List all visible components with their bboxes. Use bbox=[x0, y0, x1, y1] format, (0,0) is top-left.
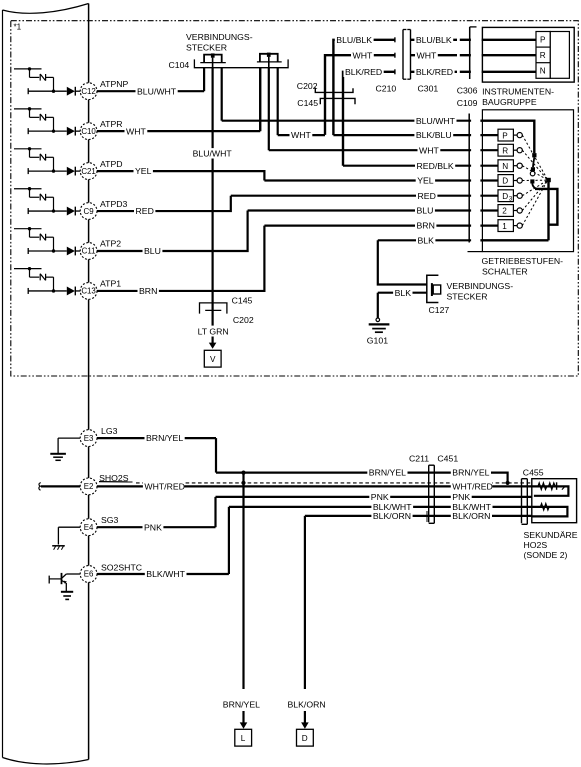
svg-text:YEL: YEL bbox=[417, 176, 434, 186]
label BLK/WHT (C211 left) bbox=[371, 502, 413, 512]
label BLK (row) bbox=[416, 235, 435, 245]
wire WHT/RED from E2 bbox=[41, 485, 80, 487]
label PNK (C211 left) bbox=[369, 492, 390, 502]
connector E4 bbox=[80, 519, 97, 536]
svg-text:C13: C13 bbox=[81, 287, 96, 296]
position P bbox=[480, 129, 522, 141]
wire into C21 with terminal bbox=[28, 168, 67, 174]
svg-text:STECKER: STECKER bbox=[447, 291, 488, 301]
svg-text:VERBINDUNGS-: VERBINDUNGS- bbox=[186, 32, 253, 42]
diode at C10 bbox=[67, 127, 80, 136]
svg-text:C145: C145 bbox=[297, 98, 318, 108]
svg-text:BLK/RED: BLK/RED bbox=[416, 67, 453, 77]
svg-text:C451: C451 bbox=[437, 454, 458, 464]
wire into C10 with terminal bbox=[28, 128, 67, 134]
wire riser (C104 to WHT from C10) bbox=[259, 68, 261, 131]
connector C455 bbox=[522, 479, 528, 525]
svg-text:D: D bbox=[302, 734, 308, 743]
svg-text:*1: *1 bbox=[14, 23, 22, 32]
arrow to terminal D bbox=[304, 711, 306, 723]
svg-text:D: D bbox=[502, 192, 508, 201]
label PNK (C451 right) bbox=[451, 492, 472, 502]
connector C145 (inline) bbox=[320, 98, 355, 104]
svg-text:BLK/ORN: BLK/ORN bbox=[373, 511, 411, 521]
svg-text:SEKUNDÄRE: SEKUNDÄRE bbox=[524, 530, 578, 540]
svg-text:RED: RED bbox=[136, 206, 154, 216]
label BRN (row) bbox=[415, 220, 436, 230]
label BLU at C11 bbox=[143, 246, 163, 256]
label BLU/WHT on riser bbox=[191, 148, 233, 158]
arrow to terminal L bbox=[242, 711, 244, 723]
connector C13 bbox=[80, 283, 97, 300]
connector C210/C301 bracket pair bbox=[403, 30, 411, 80]
svg-text:BLU: BLU bbox=[417, 206, 434, 216]
svg-text:BRN: BRN bbox=[139, 286, 157, 296]
svg-text:D: D bbox=[502, 177, 508, 186]
svg-text:V: V bbox=[210, 355, 216, 364]
label WHT/RED (C451 right) bbox=[451, 479, 493, 491]
shield dashed line (WHT/RED) bbox=[99, 481, 133, 483]
diode at C9 bbox=[67, 207, 80, 216]
svg-text:2: 2 bbox=[502, 207, 507, 216]
svg-text:C210: C210 bbox=[376, 83, 397, 93]
svg-text:ATPD: ATPD bbox=[100, 159, 123, 169]
indicator lamp circuit at C9 bbox=[14, 187, 54, 211]
wire BLU/WHT inside switch to wiper bbox=[480, 121, 534, 153]
wire RED switch row bbox=[231, 195, 471, 197]
svg-text:C12: C12 bbox=[81, 87, 95, 96]
wire riser (C104 to switch row WHT) bbox=[268, 68, 270, 151]
wire BRN from C13 to switch bbox=[97, 226, 264, 291]
label WHT (row) bbox=[418, 145, 441, 155]
wire WHT jog to C104 bbox=[278, 134, 325, 136]
svg-text:E2: E2 bbox=[84, 482, 94, 491]
svg-text:C104: C104 bbox=[169, 60, 190, 70]
label BLK at C127 bbox=[393, 288, 412, 298]
svg-text:BLK/BLU: BLK/BLU bbox=[416, 130, 452, 140]
wire BLK/ORN drop to D bbox=[304, 516, 306, 689]
wire YEL switch row bbox=[264, 179, 471, 181]
label BLK/RED (left) bbox=[344, 67, 384, 77]
svg-text:WHT: WHT bbox=[291, 130, 311, 140]
svg-text:HO2S: HO2S bbox=[524, 540, 548, 550]
label YEL at C21 bbox=[134, 166, 153, 176]
svg-text:BLU/BLK: BLU/BLK bbox=[416, 35, 452, 45]
svg-text:WHT: WHT bbox=[126, 126, 146, 136]
diode at C11 bbox=[67, 247, 80, 256]
wire BRN/YEL run to C211 bbox=[216, 473, 508, 484]
svg-text:R: R bbox=[502, 146, 508, 155]
connector E6 bbox=[80, 566, 97, 583]
svg-text:WHT: WHT bbox=[419, 145, 439, 155]
svg-text:RED: RED bbox=[418, 191, 436, 201]
svg-text:BLK/RED: BLK/RED bbox=[345, 67, 382, 77]
wire BLU/WHT switch row bbox=[222, 120, 471, 122]
connector C109 line bbox=[468, 114, 470, 243]
chassis ground at E4 bbox=[52, 527, 65, 550]
svg-text:PNK: PNK bbox=[144, 522, 162, 532]
wire PNK from E4 bbox=[58, 526, 80, 528]
svg-text:N: N bbox=[540, 67, 546, 76]
position D bbox=[480, 175, 522, 187]
label RED (row) bbox=[416, 191, 437, 201]
diode at C12 bbox=[67, 87, 80, 96]
wire BRN/YEL drop to L bbox=[242, 473, 244, 689]
svg-text:SO2SHTC: SO2SHTC bbox=[101, 562, 142, 572]
position N bbox=[480, 160, 522, 172]
svg-text:BRN/YEL: BRN/YEL bbox=[146, 433, 183, 443]
contact loop bbox=[535, 189, 557, 225]
label BRN/YEL (C211 left) bbox=[367, 467, 407, 477]
label BLK/ORN (C451 right) bbox=[451, 511, 492, 521]
wiper dashed lines bbox=[522, 135, 547, 226]
svg-text:ATP2: ATP2 bbox=[100, 239, 121, 249]
svg-text:BLK/ORN: BLK/ORN bbox=[452, 511, 490, 521]
terminal box V bbox=[204, 350, 221, 367]
sensor element (signal) bbox=[532, 482, 569, 496]
wire BRN switch row bbox=[264, 225, 471, 227]
wire into C13 with terminal bbox=[28, 288, 67, 294]
connector C211/C451 bbox=[427, 465, 434, 523]
svg-text:STECKER: STECKER bbox=[186, 42, 227, 52]
indicator cells P R N bbox=[536, 32, 569, 79]
svg-text:BLU/WHT: BLU/WHT bbox=[137, 86, 177, 96]
connector C306 line bbox=[470, 27, 477, 79]
terminal box L bbox=[235, 729, 252, 746]
label YEL (row) bbox=[416, 175, 435, 185]
svg-text:L: L bbox=[241, 734, 246, 743]
label PNK at E4 bbox=[143, 522, 164, 532]
svg-text:BLK: BLK bbox=[418, 235, 435, 245]
wiper contact squares and hooks bbox=[530, 153, 551, 189]
ground G101 bbox=[369, 293, 390, 333]
svg-text:BRN/YEL: BRN/YEL bbox=[369, 468, 406, 478]
svg-text:PNK: PNK bbox=[452, 492, 470, 502]
diode at C21 bbox=[67, 167, 80, 176]
wire BLU/WHT from C12 to C104 bbox=[97, 90, 204, 92]
svg-text:INSTRUMENTEN-: INSTRUMENTEN- bbox=[482, 86, 554, 96]
svg-text:BAUGRUPPE: BAUGRUPPE bbox=[482, 97, 537, 107]
svg-text:WHT/RED: WHT/RED bbox=[452, 482, 493, 492]
wires through C210/C301 to C306 bbox=[411, 39, 457, 41]
wire riser (C104 to switch row BLU/WHT) bbox=[221, 68, 223, 121]
wire BLK/WHT from E6 bbox=[66, 573, 80, 575]
wire into C9 with terminal bbox=[28, 208, 67, 214]
svg-text:C11: C11 bbox=[82, 247, 96, 256]
wire into C11 with terminal bbox=[28, 248, 67, 254]
svg-text:G101: G101 bbox=[367, 336, 388, 346]
svg-text:BLU/BLK: BLU/BLK bbox=[336, 35, 372, 45]
svg-text:C9: C9 bbox=[84, 207, 95, 216]
wire WHT from C10 to C104 bbox=[97, 130, 260, 132]
indicator lamp circuit at C13 bbox=[14, 267, 54, 291]
label BLK/WHT (C451 right) bbox=[451, 502, 493, 512]
wire YEL from C21 to switch bbox=[97, 171, 264, 180]
label WHT (row near C104) bbox=[290, 130, 313, 140]
wire RED/BLK switch row bbox=[343, 165, 471, 167]
svg-text:BLU/WHT: BLU/WHT bbox=[416, 116, 456, 126]
svg-text:SCHALTER: SCHALTER bbox=[482, 267, 528, 277]
svg-text:GETRIEBESTUFEN-: GETRIEBESTUFEN- bbox=[482, 256, 564, 266]
wire into C12 with terminal bbox=[28, 88, 67, 94]
junction dots BRN/YEL shield bbox=[241, 471, 245, 475]
connector C21 bbox=[80, 163, 97, 180]
label WHT at C10 bbox=[125, 126, 148, 136]
svg-text:E4: E4 bbox=[84, 523, 94, 532]
common contact drop bbox=[547, 182, 549, 240]
svg-text:C202: C202 bbox=[233, 315, 254, 325]
svg-text:C211: C211 bbox=[409, 454, 429, 464]
label BLU/BLK (right) bbox=[414, 35, 453, 45]
svg-text:WHT: WHT bbox=[353, 50, 373, 60]
svg-text:1: 1 bbox=[502, 222, 507, 231]
sekundaere HO2S sensor box bbox=[532, 479, 577, 523]
svg-text:PNK: PNK bbox=[371, 492, 389, 502]
svg-text:C306: C306 bbox=[457, 86, 478, 96]
instrument cluster box (INSTRUMENTEN-BAUGRUPPE) bbox=[482, 27, 574, 82]
svg-text:ATPD3: ATPD3 bbox=[100, 199, 128, 209]
svg-text:BLK/ORN: BLK/ORN bbox=[288, 699, 326, 709]
svg-text:LG3: LG3 bbox=[101, 426, 118, 436]
svg-text:ATPR: ATPR bbox=[100, 119, 123, 129]
connector C10 bbox=[80, 123, 97, 140]
svg-text:E6: E6 bbox=[84, 570, 94, 579]
wire BLU switch row bbox=[248, 209, 472, 211]
wire PNK run to C211 bbox=[216, 496, 532, 498]
connector C9 bbox=[80, 203, 97, 220]
wire BLK from G101 to C127 bbox=[378, 292, 427, 294]
arrow to V bbox=[212, 337, 214, 344]
svg-text:BLU: BLU bbox=[144, 246, 161, 256]
svg-text:LT GRN: LT GRN bbox=[198, 327, 229, 337]
label BLU/BLK (left) bbox=[335, 35, 374, 45]
svg-text:P: P bbox=[502, 131, 508, 140]
wire BLK switch row bbox=[378, 239, 471, 241]
svg-text:BLK/WHT: BLK/WHT bbox=[146, 569, 185, 579]
svg-text:VERBINDUNGS-: VERBINDUNGS- bbox=[447, 281, 514, 291]
svg-text:BLK: BLK bbox=[395, 288, 412, 298]
svg-text:BLU/WHT: BLU/WHT bbox=[193, 148, 233, 158]
svg-text:P: P bbox=[540, 35, 546, 44]
wire WHT instrument riser bbox=[325, 55, 395, 135]
wire WHT switch row bbox=[269, 149, 471, 151]
wires inside instrument box bbox=[482, 39, 536, 41]
connector C104 (Verbindungsstecker) bbox=[194, 53, 288, 68]
diode at C13 bbox=[67, 287, 80, 296]
connector E3 bbox=[80, 430, 97, 447]
svg-text:SG3: SG3 bbox=[101, 515, 119, 525]
transistor at E6 bbox=[49, 573, 73, 600]
svg-text:C127: C127 bbox=[429, 305, 450, 315]
svg-text:WHT/RED: WHT/RED bbox=[144, 482, 185, 492]
wire BLK/BLU switch row bbox=[333, 134, 471, 136]
svg-text:ATPNP: ATPNP bbox=[100, 79, 129, 89]
ground at E3 (LG3) bbox=[50, 438, 80, 460]
dashed border of block *1 bbox=[11, 21, 579, 376]
svg-text:R: R bbox=[540, 51, 546, 60]
svg-text:C21: C21 bbox=[81, 167, 95, 176]
indicator lamp circuit at C21 bbox=[14, 147, 54, 171]
connector C127 bbox=[427, 275, 441, 302]
connector C202 bbox=[315, 88, 353, 93]
label BLK/WHT at E6 bbox=[145, 569, 187, 579]
position 1 bbox=[480, 220, 522, 232]
svg-text:BRN/YEL: BRN/YEL bbox=[223, 699, 260, 709]
label BLK/BLU (row) bbox=[414, 130, 453, 140]
svg-text:WHT: WHT bbox=[417, 50, 437, 60]
indicator lamp circuit at C10 bbox=[14, 107, 54, 131]
wire BLU/BLK instrument riser bbox=[333, 40, 395, 135]
wire riser (C104 to WHT jog) bbox=[277, 68, 279, 135]
label BRN/YEL (C451 right) bbox=[451, 467, 491, 477]
label BLK/ORN (C211 left) bbox=[371, 511, 412, 521]
svg-text:N: N bbox=[502, 162, 508, 171]
svg-text:C145: C145 bbox=[232, 296, 253, 306]
wire riser BLU/WHT (C104 to C145) bbox=[212, 68, 214, 303]
Getriebestufenschalter box bbox=[482, 110, 573, 252]
heater element bbox=[532, 504, 568, 517]
svg-text:C202: C202 bbox=[297, 81, 318, 91]
label BLK/RED (right) bbox=[414, 67, 454, 77]
wire BRN/YEL from E3 bbox=[97, 437, 216, 439]
svg-text:SHO2S: SHO2S bbox=[99, 473, 129, 483]
label WHT (left) bbox=[351, 50, 374, 60]
indicator lamp circuit at C11 bbox=[14, 227, 54, 251]
wire RED from C9 to switch bbox=[97, 196, 231, 211]
wire BLK/RED instrument riser bbox=[343, 72, 395, 166]
svg-text:E3: E3 bbox=[84, 434, 94, 443]
position D3 bbox=[480, 190, 522, 203]
connector C145 on LT GRN wire bbox=[200, 303, 227, 314]
connector E2 bbox=[80, 478, 97, 495]
wire BLK to C127 bbox=[378, 240, 427, 284]
svg-text:(SONDE 2): (SONDE 2) bbox=[524, 550, 568, 560]
svg-text:BRN: BRN bbox=[417, 221, 435, 231]
label BLU (row) bbox=[415, 205, 435, 215]
svg-text:C109: C109 bbox=[457, 98, 478, 108]
connector C11 bbox=[80, 243, 97, 260]
position R bbox=[480, 144, 522, 156]
connector C202 plate bbox=[205, 309, 221, 311]
label WHT (right) bbox=[415, 50, 438, 60]
svg-text:C10: C10 bbox=[81, 127, 96, 136]
label BRN/YEL at E3 bbox=[145, 433, 185, 443]
wire LT GRN to V bbox=[212, 313, 214, 326]
label RED at C9 bbox=[134, 206, 155, 216]
svg-text:RED/BLK: RED/BLK bbox=[417, 161, 454, 171]
position 2 bbox=[480, 205, 522, 217]
label RED/BLK (row) bbox=[415, 161, 455, 171]
svg-text:BRN/YEL: BRN/YEL bbox=[452, 468, 489, 478]
label BLU/WHT (row) bbox=[414, 116, 456, 126]
wire BLU from C11 to switch bbox=[97, 211, 248, 252]
label WHT/RED at E2 bbox=[143, 479, 185, 491]
connector C12 bbox=[80, 83, 97, 100]
pigtail at E2 bbox=[39, 483, 41, 491]
label BRN at C13 bbox=[138, 286, 159, 296]
main bus wire (harness right edge) bbox=[88, 4, 90, 760]
wire BLK inside switch (common return) bbox=[480, 239, 548, 241]
svg-text:C455: C455 bbox=[523, 468, 544, 478]
svg-text:YEL: YEL bbox=[135, 166, 152, 176]
svg-text:C301: C301 bbox=[418, 83, 439, 93]
wire harness band (left cable sheath) bbox=[3, 4, 89, 14]
svg-text:ATP1: ATP1 bbox=[100, 279, 121, 289]
label BLU/WHT at C12 bbox=[136, 86, 178, 96]
wire BLK/ORN run bbox=[305, 515, 532, 517]
svg-text:3: 3 bbox=[509, 195, 513, 202]
terminal box D bbox=[297, 729, 314, 746]
wire BLK/WHT run to C211 bbox=[229, 506, 532, 508]
indicator lamp circuit at C12 bbox=[14, 67, 54, 91]
